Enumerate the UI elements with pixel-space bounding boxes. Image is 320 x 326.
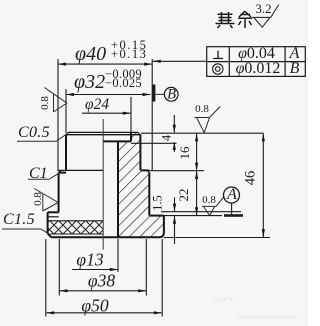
phi38 text <box>88 271 115 292</box>
phi24 wall <box>130 132 132 141</box>
phi50 text <box>81 295 108 316</box>
roughness symbol 3.2 (top right) <box>252 5 279 28</box>
dim 16 text <box>177 147 193 160</box>
dim 16 <box>196 133 198 170</box>
ext top face right <box>141 132 264 134</box>
hatch region upper-right (between phi24 wall and phi32 OD) <box>131 132 140 141</box>
flange second line left <box>48 216 59 218</box>
arrowheads <box>46 60 265 315</box>
phi38 left arrow <box>60 289 68 292</box>
flange left edge <box>47 212 49 233</box>
phi32 left edge <box>65 135 67 170</box>
dim 22 <box>196 171 198 215</box>
ext phi24 right <box>130 97 132 132</box>
roughness 0.8 text d <box>202 194 216 206</box>
dim phi32 <box>66 94 151 96</box>
phi24 dimension text <box>85 96 109 114</box>
phi24 arrow <box>123 112 131 115</box>
shoulder left <box>58 169 103 171</box>
hatch region phi40 wall section <box>118 170 149 216</box>
phi50 right arrow <box>154 311 162 314</box>
dim 4 text <box>160 135 175 141</box>
roughness symbol c (top face ext) <box>195 106 221 132</box>
hatch region flange section <box>118 216 164 238</box>
top face <box>69 131 138 133</box>
phi40 left edge <box>58 173 60 213</box>
roughness 0.8 text b (rotated) <box>32 192 44 206</box>
dim1.5 upper arrow (down) <box>173 204 176 212</box>
C1 label <box>29 165 48 183</box>
phi40 dimension text <box>75 43 106 66</box>
phi40 right arrow <box>144 63 152 66</box>
datum A base bar <box>224 214 243 217</box>
dim4 upper arrow (down) <box>173 125 176 133</box>
phi32 left arrow <box>66 93 74 96</box>
knurl band <box>48 221 103 234</box>
leader C1 <box>28 173 60 180</box>
ext phi32 left <box>65 89 67 133</box>
3.2 text <box>255 1 271 17</box>
dim phi50 <box>46 312 162 314</box>
dim22 bottom arrow <box>195 207 198 215</box>
ext phi38 right <box>145 239 147 296</box>
roughness 0.8 text a (rotated) <box>39 96 51 110</box>
C0.5 label <box>18 124 50 142</box>
flange top right <box>149 215 164 217</box>
ext phi40 left <box>57 59 59 171</box>
dim4 lower arrow (up) <box>173 142 176 150</box>
part outline <box>48 132 164 237</box>
ext bottom face right <box>164 237 270 239</box>
C1.5 chamfer bottom left <box>48 233 52 237</box>
bottom face <box>51 236 159 238</box>
concentricity symbol <box>213 64 223 74</box>
dim16 bottom arrow <box>195 163 198 171</box>
dimension lines <box>46 61 263 312</box>
counterbore bottom <box>103 140 131 142</box>
dim phi38 <box>60 290 147 292</box>
datum A circle <box>224 187 240 203</box>
dim22 top arrow <box>195 171 198 179</box>
leader C1.5 <box>2 229 48 234</box>
datum B bar <box>152 85 155 102</box>
dim46 bottom arrow <box>262 229 265 237</box>
phi13 arrow <box>110 268 118 271</box>
dim 46 text <box>242 171 259 186</box>
dim46 top arrow <box>262 133 265 141</box>
ext phi50 right <box>161 239 163 317</box>
phi32 dimension text <box>74 71 105 94</box>
char 其 <box>216 12 235 28</box>
phi32 right arrow <box>143 93 151 96</box>
datum A stem <box>231 203 233 215</box>
datum A letter <box>227 186 237 204</box>
knurl band top <box>48 220 103 222</box>
FCF A <box>290 45 300 63</box>
ext flange top right <box>164 215 222 217</box>
dim1.5 lower arrow (up) <box>173 216 176 224</box>
phi50 left arrow <box>46 311 54 314</box>
phi40 left arrow <box>58 63 66 66</box>
dim phi24 <box>82 112 131 114</box>
ext phi13 right <box>117 239 119 272</box>
phi13 wall <box>117 141 119 237</box>
dim 1.5 arrows <box>174 198 176 245</box>
feature control frame <box>207 47 306 77</box>
datum B letter <box>167 86 176 103</box>
leader C0.5 <box>17 133 68 141</box>
ext phi50 left <box>45 239 47 317</box>
FCF leader arrow <box>153 60 161 63</box>
roughness symbol d (flange top ext) <box>202 197 224 215</box>
phi38 right arrow <box>138 289 146 292</box>
top chamfer left diagonal <box>66 132 69 135</box>
FCF B <box>290 60 300 78</box>
char 余 <box>238 11 252 28</box>
flange right edge with round corner <box>159 216 164 238</box>
phi40 right edge <box>148 173 150 216</box>
ext phi38 left <box>58 239 60 296</box>
ext flange rim right <box>161 211 241 213</box>
knurl band bottom <box>50 233 103 235</box>
FCF row2 phi0.012 <box>236 60 281 78</box>
ext phi40 right <box>151 59 153 170</box>
dim 4 arrows <box>173 115 175 152</box>
dim16 top arrow <box>195 133 198 141</box>
faint watermark smudges <box>214 297 298 317</box>
centerline <box>102 119 104 250</box>
chamfer line under top face <box>66 134 140 136</box>
datum B connector <box>155 93 164 95</box>
dim 22 text <box>176 189 192 202</box>
leader to tolerance frame <box>153 60 207 62</box>
extension lines <box>46 59 270 317</box>
roughness symbol b (phi40 edge) <box>34 189 58 212</box>
roughness 0.8 text c <box>195 103 209 115</box>
dim 46 <box>262 133 264 237</box>
dim phi13 <box>72 269 118 271</box>
dim phi40 <box>58 63 152 65</box>
roughness symbol a (phi32 ext) <box>45 88 67 113</box>
C1.5 label <box>3 211 35 229</box>
hatch region phi32 wall section <box>118 141 140 170</box>
phi13 text <box>76 250 103 271</box>
phi32 right edge <box>139 135 141 170</box>
ext counterbore bottom <box>131 142 177 144</box>
dim 1.5 text <box>150 195 165 211</box>
datum B circle <box>164 87 178 101</box>
perpendicularity symbol <box>213 51 223 59</box>
shoulder right <box>140 169 149 171</box>
flange top left <box>48 211 59 213</box>
FCF row1 phi0.04 <box>238 45 275 63</box>
top chamfer right diagonal <box>138 132 141 135</box>
ext shoulder right <box>149 170 204 172</box>
